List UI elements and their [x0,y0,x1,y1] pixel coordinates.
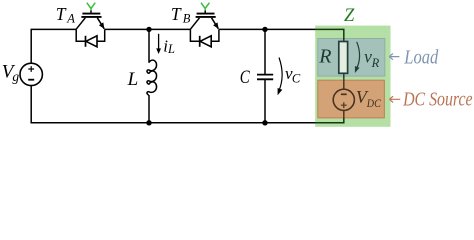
label C [240,67,250,88]
svg-text:g: g [12,69,19,84]
wire R to VDC [343,73,345,90]
current arrow iL [156,34,161,54]
svg-text:DC Source: DC Source [402,89,473,110]
transistor TA [76,3,104,30]
label VDC [356,87,382,110]
node: top junction of L branch [146,27,151,32]
svg-text:C: C [240,67,250,88]
antiparallel diode of TB [190,29,219,46]
wire bottom [31,122,316,124]
svg-text:T: T [56,4,67,24]
annotation label: DC Source [402,89,473,110]
label Vg [2,61,20,84]
wire top middle: TA emitter to TB collector [105,28,191,30]
label L [127,69,139,90]
node: bottom junction of L branch [146,120,151,125]
label R [318,45,331,67]
svg-text:T: T [171,4,182,24]
inductor L [147,60,157,95]
resistor R [339,42,348,74]
svg-text:L: L [127,69,139,90]
svg-text:A: A [66,12,75,26]
wire L branch [148,29,150,122]
node: top junction of C branch [262,27,267,32]
svg-text:R: R [371,56,380,70]
svg-text:R: R [318,45,331,67]
impedance block Z (outer green box) [315,26,390,127]
label Z [344,6,355,26]
wire top right inside green box down to R [315,29,344,42]
svg-text:L: L [167,42,175,56]
svg-text:DC: DC [366,96,382,110]
voltage arrow vR [355,42,360,73]
wire C branch [264,29,266,122]
annotation arrow: DC Source [390,96,401,102]
wire VDC to bottom [343,110,345,118]
svg-text:B: B [183,12,191,26]
load sub-block (teal box) [318,39,385,77]
label TB [171,4,191,26]
label iL [163,36,175,56]
label vC [285,64,301,86]
wire top right: TB emitter to Z block [219,28,316,30]
wire top left: Vg to TA collector [31,28,76,30]
transistor TB [190,3,218,30]
voltage source Vg [20,63,42,85]
antiparallel diode of TA [76,29,105,46]
label vR [364,47,380,70]
svg-text:C: C [292,71,301,85]
capacitor C [257,75,273,80]
annotation arrow: Load [389,54,399,60]
svg-text:Load: Load [403,47,439,69]
node: bottom junction of C branch [262,120,267,125]
DC source VDC [333,89,354,110]
svg-text:Z: Z [344,6,355,26]
voltage arrow vC [278,58,283,96]
wire left: Vg branch [30,29,32,124]
DC source sub-block (orange box) [318,80,385,118]
wire bottom inside green box up to VDC [315,118,344,124]
annotation label: Load [403,47,439,69]
label TA [56,4,76,26]
